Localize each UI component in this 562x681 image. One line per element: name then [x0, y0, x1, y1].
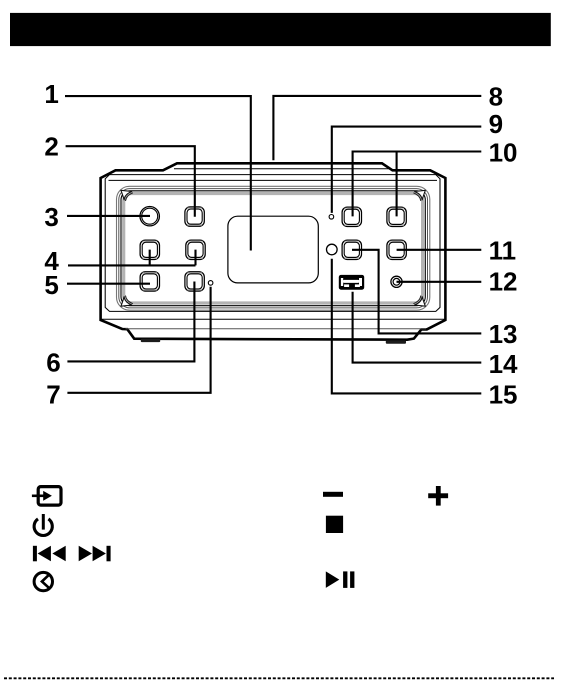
- front face top second line: [109, 179, 438, 181]
- knob (item 3): [140, 207, 159, 226]
- button item 10 left: [342, 207, 361, 226]
- top lid front edge line: [174, 168, 389, 170]
- button item 10 right: [387, 207, 406, 226]
- panel gray band: [124, 194, 423, 304]
- USB port item 14: [339, 275, 364, 290]
- leader line 13: [352, 250, 481, 334]
- svg-text:14: 14: [489, 349, 518, 379]
- icon skip forward: [79, 546, 111, 562]
- button item 5: [140, 272, 159, 291]
- LED dot item 9: [329, 215, 334, 220]
- left foot: [141, 339, 160, 342]
- panel corner wedge TL: [121, 190, 133, 201]
- panel corner wedge TR: [413, 190, 425, 201]
- panel corner wedge BL: [121, 296, 133, 307]
- panel corner wedge BR: [413, 296, 425, 307]
- leader line 7: [67, 287, 210, 393]
- icon skip back: [33, 546, 66, 562]
- svg-text:5: 5: [44, 270, 58, 300]
- button item 4 right: [186, 240, 205, 259]
- leader line 3: [67, 215, 150, 217]
- leader line 15: [332, 259, 482, 394]
- leader line 8: [273, 96, 481, 160]
- leader line 1: [65, 96, 251, 250]
- LED dot item 7: [208, 281, 213, 286]
- display item 1: [228, 216, 318, 283]
- icon play pause: [326, 571, 355, 588]
- icon volume minus: [323, 492, 343, 497]
- bottom contour line lower: [126, 328, 427, 330]
- icon power: [34, 514, 52, 536]
- icon clock timer: [34, 572, 52, 590]
- button item 13: [342, 240, 361, 259]
- svg-text:10: 10: [489, 138, 518, 168]
- leader line 14: [353, 292, 482, 363]
- leader line 5: [67, 283, 150, 285]
- icon volume plus: [428, 486, 448, 506]
- leader line 12: [397, 281, 482, 283]
- leader line 2: [66, 146, 195, 217]
- svg-text:15: 15: [489, 379, 518, 409]
- leader line 9: [332, 127, 482, 213]
- audio jack item 12: [391, 276, 402, 287]
- icon aux input: [32, 487, 61, 506]
- button item 4 left: [140, 240, 159, 259]
- control panel frame: [117, 186, 430, 310]
- top title bar: [10, 13, 551, 46]
- svg-text:8: 8: [489, 81, 503, 111]
- button item 11: [387, 240, 406, 259]
- leader line 4: [68, 250, 196, 266]
- icon stop: [326, 516, 343, 533]
- svg-text:2: 2: [44, 132, 58, 162]
- leader line 11: [397, 249, 482, 251]
- leader line 10: [353, 152, 482, 217]
- svg-text:9: 9: [489, 109, 503, 139]
- front face outer bevel: [105, 175, 440, 312]
- right foot: [386, 340, 406, 343]
- leader line 6: [67, 282, 194, 362]
- svg-text:11: 11: [489, 235, 516, 265]
- bottom contour line upper: [102, 318, 446, 320]
- button item 6: [185, 272, 204, 291]
- round button item 15: [327, 244, 338, 255]
- svg-text:6: 6: [46, 348, 60, 378]
- svg-text:13: 13: [489, 319, 518, 349]
- button item 2: [185, 207, 204, 226]
- svg-text:3: 3: [44, 202, 58, 232]
- bottom dashed rule: [4, 677, 554, 679]
- svg-text:12: 12: [489, 266, 518, 296]
- svg-text:7: 7: [46, 380, 60, 410]
- device body outline: [101, 163, 446, 339]
- svg-text:1: 1: [44, 79, 58, 109]
